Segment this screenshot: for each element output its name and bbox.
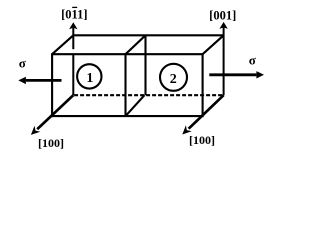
node grain 1 circle [77,64,101,88]
wire grain-boundary top edge [126,35,146,54]
wire front-bottom edge [52,115,203,117]
wire top-right depth edge [203,35,224,54]
arrow [100] axis (lower-right) [182,95,223,134]
arrow sigma stress (right) [209,71,264,78]
svg-text:[011]: [011] [61,7,87,21]
arrow [001] axis (vertical, right) [219,22,227,95]
node grain 2 circle [160,64,187,91]
svg-text:[100]: [100] [189,133,215,147]
arrow [0-11] axis (vertical, left) [69,22,77,95]
arrow [100] axis (lower-left) [31,95,73,135]
wire grain-boundary back edge [144,35,146,95]
wire grain-boundary bottom edge [126,95,145,116]
wire grain-boundary front edge [124,54,126,116]
wire back-bottom hidden edge (dashed) [74,94,224,96]
wire top-left depth edge [52,35,73,54]
arrow sigma stress (left) [18,77,61,84]
svg-text:1: 1 [86,71,93,86]
label [0-11] [61,7,87,21]
wire front-top edge [52,53,203,55]
svg-text:σ: σ [249,53,256,68]
wire front-left edge [51,53,53,117]
svg-text:[100]: [100] [38,136,64,150]
wire back-top edge [73,34,223,36]
svg-text:[001]: [001] [209,8,236,22]
svg-text:2: 2 [170,72,177,87]
svg-text:σ: σ [19,56,26,71]
wire front-right edge [202,53,204,117]
